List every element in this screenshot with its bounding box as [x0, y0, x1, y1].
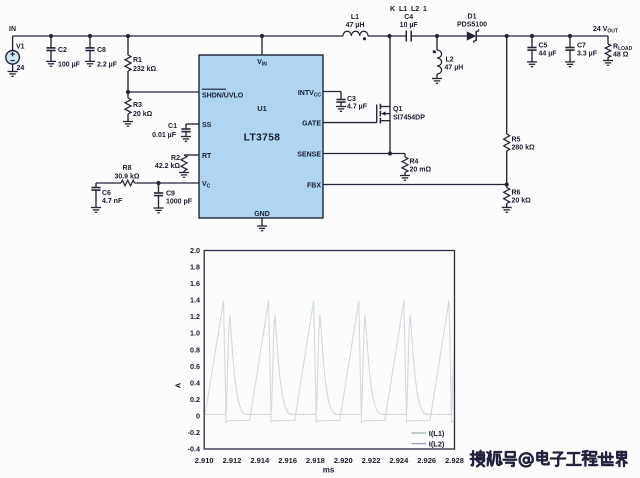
- wire Vc net: [96, 182, 121, 184]
- svg-text:R8: R8: [123, 165, 132, 172]
- svg-text:20 kΩ: 20 kΩ: [512, 198, 532, 205]
- svg-text:I(L1): I(L1): [429, 429, 445, 438]
- wire GND stub: [261, 218, 263, 226]
- svg-text:1.6: 1.6: [190, 279, 200, 288]
- svg-text:2.926: 2.926: [417, 456, 436, 465]
- ground C7: [565, 62, 575, 67]
- svg-text:2.928: 2.928: [445, 456, 464, 465]
- svg-text:C9: C9: [166, 191, 175, 198]
- node output junction: [505, 34, 509, 38]
- svg-text:D1: D1: [468, 14, 477, 21]
- svg-text:4.7 nF: 4.7 nF: [102, 198, 123, 205]
- L1 polarity dot: [363, 37, 366, 40]
- svg-text:0.8: 0.8: [190, 345, 200, 354]
- svg-text:0.01 µF: 0.01 µF: [152, 132, 177, 139]
- ground C8: [85, 61, 95, 66]
- svg-text:C6: C6: [102, 190, 111, 197]
- transistor Q1 SI7454DP: [376, 105, 378, 123]
- node switch junction: [387, 34, 391, 38]
- svg-text:GND: GND: [254, 211, 270, 218]
- chart x-axis tick labels: [195, 456, 464, 465]
- wire FBX: [323, 184, 507, 186]
- ground C2: [46, 61, 56, 66]
- svg-text:2.0: 2.0: [190, 246, 200, 255]
- svg-text:2.912: 2.912: [223, 456, 242, 465]
- resistor R1: [127, 36, 129, 55]
- svg-text:1.8: 1.8: [190, 263, 200, 272]
- node junction C7: [568, 34, 572, 38]
- wire SHDN/UVLO: [128, 91, 199, 93]
- ground C9: [154, 208, 164, 213]
- resistor R3: [127, 92, 129, 98]
- svg-text:10 µF: 10 µF: [400, 22, 419, 29]
- svg-text:0: 0: [196, 411, 200, 420]
- ground R6: [502, 208, 512, 213]
- capacitor C7: [569, 36, 571, 48]
- capacitor C9: [158, 183, 160, 193]
- svg-text:100 µF: 100 µF: [58, 62, 81, 69]
- svg-text:PDS5100: PDS5100: [457, 21, 487, 28]
- inductor L1: [343, 31, 368, 36]
- wire SENSE: [323, 153, 405, 155]
- wire GATE: [323, 122, 377, 124]
- inductor L2: [437, 50, 442, 74]
- diode D1: [467, 31, 476, 40]
- trace I(L2): [204, 315, 471, 415]
- op-amp U1 LT3758 body: [199, 55, 323, 218]
- svg-text:SI7454DP: SI7454DP: [393, 115, 425, 122]
- svg-text:2.922: 2.922: [362, 456, 381, 465]
- node junction VIN: [260, 34, 264, 38]
- svg-text:30.9 kΩ: 30.9 kΩ: [114, 174, 139, 181]
- svg-text:20 kΩ: 20 kΩ: [133, 111, 153, 118]
- node junction L2 top: [435, 34, 439, 38]
- svg-text:0.4: 0.4: [190, 378, 200, 387]
- chart plot frame: [204, 251, 454, 450]
- svg-text:C3: C3: [347, 96, 356, 103]
- svg-text:1.0: 1.0: [190, 329, 200, 338]
- capacitor C5: [531, 36, 533, 48]
- svg-text:R5: R5: [512, 137, 521, 144]
- svg-text:IN: IN: [9, 26, 16, 33]
- svg-text:C5: C5: [539, 43, 548, 50]
- capacitor C3: [340, 92, 342, 100]
- ground C6: [91, 208, 101, 213]
- svg-text:SHDN/UVLO: SHDN/UVLO: [202, 93, 244, 100]
- svg-text:K L1 L2 1: K L1 L2 1: [390, 6, 427, 13]
- svg-text:U1: U1: [257, 104, 267, 113]
- watermark sohu eeworld: [471, 451, 486, 467]
- svg-text:20 mΩ: 20 mΩ: [410, 167, 432, 174]
- svg-text:48 Ω: 48 Ω: [613, 52, 629, 59]
- svg-text:R1: R1: [133, 57, 142, 64]
- ground V1: [8, 72, 18, 77]
- svg-text:24 VOUT: 24 VOUT: [593, 26, 618, 35]
- svg-text:2.910: 2.910: [195, 456, 214, 465]
- svg-text:1.2: 1.2: [190, 312, 200, 321]
- capacitor C6: [95, 183, 97, 188]
- svg-text:R3: R3: [133, 102, 142, 109]
- svg-text:2.914: 2.914: [250, 456, 270, 465]
- svg-text:232 kΩ: 232 kΩ: [133, 66, 157, 73]
- svg-text:R4: R4: [410, 159, 419, 166]
- svg-text:V1: V1: [16, 44, 25, 51]
- capacitor C2: [50, 36, 52, 48]
- svg-text:C1: C1: [168, 123, 177, 130]
- svg-text:2.918: 2.918: [306, 456, 325, 465]
- wire RT: [184, 154, 199, 156]
- ground U1 GND: [257, 226, 267, 231]
- svg-text:-0.4: -0.4: [188, 445, 200, 454]
- node Vc junction: [156, 181, 160, 185]
- svg-text:RT: RT: [202, 153, 212, 160]
- svg-text:C2: C2: [58, 47, 67, 54]
- voltage source V1: [12, 36, 14, 51]
- svg-text:24: 24: [17, 65, 25, 72]
- ground L2: [432, 79, 442, 84]
- svg-text:2.916: 2.916: [278, 456, 297, 465]
- legend I(L2): [411, 443, 426, 445]
- ground RLOAD: [603, 61, 613, 66]
- svg-text:I(L2): I(L2): [429, 440, 445, 449]
- svg-text:47 µH: 47 µH: [445, 65, 464, 72]
- svg-text:2.924: 2.924: [389, 456, 409, 465]
- node junction C5: [530, 34, 534, 38]
- ground C5: [527, 62, 537, 67]
- capacitor C1: [185, 124, 187, 129]
- svg-text:ms: ms: [323, 466, 335, 475]
- wire INTVcc: [323, 91, 341, 93]
- resistor R2: [181, 155, 187, 171]
- svg-text:2.920: 2.920: [334, 456, 353, 465]
- capacitor C4: [406, 31, 411, 42]
- svg-text:L1: L1: [351, 14, 359, 21]
- resistor R5: [504, 134, 510, 151]
- resistor RLOAD: [607, 36, 609, 44]
- svg-text:R6: R6: [512, 190, 521, 197]
- svg-text:SS: SS: [202, 122, 212, 129]
- wire R5 top: [506, 36, 508, 134]
- node SHDN junction: [126, 90, 130, 94]
- node SENSE junction: [388, 151, 392, 155]
- wire top input rail: [13, 35, 343, 37]
- node junction R1 top: [126, 34, 130, 38]
- svg-text:0.6: 0.6: [190, 362, 200, 371]
- ground C1: [181, 137, 191, 142]
- trace I(L1): [205, 301, 476, 423]
- svg-text:2.2 µF: 2.2 µF: [97, 62, 118, 69]
- wire drain to switch node: [389, 36, 391, 107]
- wire SS: [186, 123, 199, 125]
- svg-text:Q1: Q1: [393, 106, 402, 113]
- svg-text:4.7 µF: 4.7 µF: [347, 104, 368, 111]
- svg-text:1000 pF: 1000 pF: [166, 199, 193, 206]
- ground R4: [400, 176, 410, 181]
- ground R2: [179, 173, 189, 178]
- resistor R8: [121, 180, 135, 186]
- svg-text:SENSE: SENSE: [297, 152, 321, 159]
- ground R3: [123, 122, 133, 127]
- svg-text:44 µF: 44 µF: [539, 51, 558, 58]
- svg-text:42.2 kΩ: 42.2 kΩ: [155, 163, 180, 170]
- ground C3: [336, 107, 346, 112]
- svg-text:C7: C7: [577, 43, 586, 50]
- svg-text:47 µH: 47 µH: [346, 22, 365, 29]
- L2 polarity dot: [433, 50, 436, 53]
- svg-text:C8: C8: [97, 47, 106, 54]
- svg-text:-0.2: -0.2: [188, 428, 200, 437]
- svg-text:C4: C4: [404, 14, 413, 21]
- svg-text:280 kΩ: 280 kΩ: [512, 145, 536, 152]
- svg-text:L2: L2: [446, 57, 454, 64]
- svg-text:3.3 µF: 3.3 µF: [577, 51, 598, 58]
- legend I(L1): [411, 432, 426, 434]
- node FBX junction: [505, 182, 509, 186]
- capacitor C8: [89, 36, 91, 48]
- svg-text:FBX: FBX: [307, 183, 321, 190]
- svg-text:R2: R2: [171, 155, 180, 162]
- svg-text:GATE: GATE: [302, 121, 321, 128]
- resistor R6: [506, 185, 508, 188]
- node junction C8: [88, 34, 92, 38]
- chart y-axis tick labels: [188, 246, 200, 454]
- svg-text:LT3758: LT3758: [244, 133, 281, 144]
- svg-text:0.2: 0.2: [190, 395, 200, 404]
- svg-text:1.4: 1.4: [190, 296, 200, 305]
- wire L2 stub: [436, 36, 438, 50]
- resistor R4: [404, 154, 406, 158]
- node junction C2: [49, 34, 53, 38]
- wire VIN stub: [261, 36, 263, 55]
- svg-text:A: A: [174, 382, 183, 388]
